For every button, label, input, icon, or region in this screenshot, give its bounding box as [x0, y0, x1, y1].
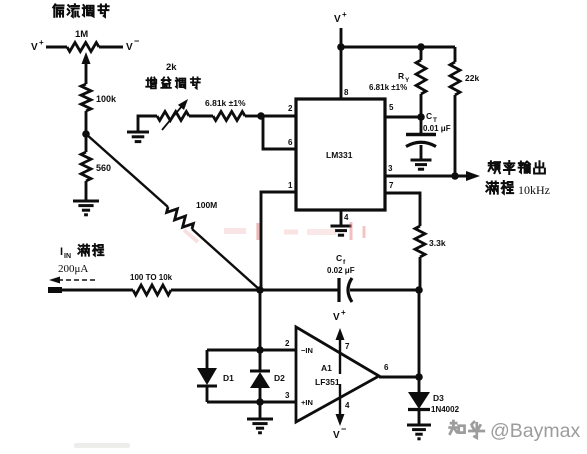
svg-text:V: V	[31, 42, 38, 53]
svg-text:100 TO 10k: 100 TO 10k	[130, 273, 173, 282]
node F (22k / output)	[451, 172, 459, 180]
label: frequency output (Chinese)	[489, 161, 545, 174]
label: full scale 10kHz (Chinese+latin)	[486, 181, 550, 197]
svg-text:1N4002: 1N4002	[431, 405, 460, 414]
svg-text:R: R	[398, 71, 404, 81]
svg-text:−IN: −IN	[301, 346, 313, 355]
op-amp A1 LF351 triangle	[296, 327, 379, 422]
wire 100k to node A	[85, 111, 88, 134]
svg-text:@Baymax: @Baymax	[490, 420, 580, 442]
label 2k	[166, 62, 177, 73]
wire resistor to node G	[171, 289, 260, 292]
watermark zhihu @Baymax	[450, 420, 581, 442]
capacitor CT	[406, 117, 436, 160]
svg-text:0.02 μF: 0.02 μF	[327, 266, 355, 275]
label 200uA	[58, 263, 88, 275]
wire node H down to output node	[418, 290, 421, 377]
wire 6.81k to node B	[245, 115, 261, 118]
label -IN	[301, 346, 313, 355]
svg-text:3: 3	[388, 164, 393, 173]
svg-text:5: 5	[389, 103, 394, 112]
pin 6 stub LM331	[263, 116, 296, 149]
label V+ left terminal of offset pot	[31, 38, 44, 53]
svg-text:8: 8	[344, 88, 349, 97]
node C (V+ rail left)	[337, 43, 345, 51]
svg-text:10kHz: 10kHz	[518, 183, 550, 197]
ground (gain pot left end)	[127, 132, 149, 142]
capacitor Cf	[260, 278, 419, 302]
svg-text:2k: 2k	[166, 62, 177, 73]
faint caption smudge bottom-left	[74, 443, 130, 448]
wire 560 to ground	[85, 181, 88, 201]
resistor 22k	[450, 47, 479, 176]
label: gain adjust title (Chinese)	[146, 77, 200, 88]
svg-text:+: +	[341, 308, 346, 317]
svg-text:100M: 100M	[196, 200, 217, 210]
svg-text:3.3k: 3.3k	[429, 238, 446, 248]
wire -IN rail	[207, 339, 296, 350]
label V- (op-amp)	[333, 424, 346, 441]
resistor Ry 6.81k 1%	[369, 47, 426, 117]
node B junction (pin2/pin6 tie)	[257, 112, 265, 120]
node G (summing input node)	[256, 286, 264, 294]
svg-text:6.81k ±1%: 6.81k ±1%	[205, 98, 246, 108]
svg-text:7: 7	[345, 342, 350, 351]
svg-text:A1: A1	[321, 363, 332, 373]
IC U1 LM331 body	[296, 99, 385, 210]
resistor 6.81k 1%	[189, 98, 246, 121]
svg-text:LF351: LF351	[315, 377, 340, 387]
svg-text:V: V	[126, 42, 133, 53]
node J (+IN rail junction)	[256, 398, 264, 406]
pin 2 stub LM331	[261, 104, 296, 116]
pin 1 stub LM331	[261, 181, 296, 290]
node D (V+ rail / Ry top)	[417, 43, 425, 51]
svg-text:4: 4	[344, 213, 349, 222]
ground (below 560)	[73, 201, 99, 215]
svg-text:V: V	[333, 430, 340, 441]
ground (below CT)	[411, 160, 432, 169]
svg-text:−: −	[341, 424, 346, 434]
svg-text:3: 3	[285, 391, 290, 400]
op-amp V+ supply arrow pin 7	[336, 328, 351, 374]
ground (LM331 pin 4)	[331, 226, 352, 235]
node A junction	[82, 130, 90, 138]
diode D2	[250, 350, 285, 402]
ground (below D3)	[407, 425, 431, 439]
svg-text:2: 2	[288, 104, 293, 113]
svg-text:4: 4	[345, 401, 350, 410]
svg-text:2: 2	[285, 339, 290, 348]
resistor 100k	[81, 84, 117, 111]
wiper arrow of offset pot	[82, 52, 91, 84]
pin 3 stub LM331 / output line	[385, 164, 467, 176]
svg-text:C: C	[336, 253, 342, 263]
potentiometer R1 1M (offset adjust)	[67, 29, 99, 52]
resistor 560	[81, 134, 111, 181]
svg-text:200μA: 200μA	[58, 263, 88, 275]
svg-text:D2: D2	[274, 373, 285, 383]
output arrow	[466, 171, 480, 181]
label: offset adjust title (Chinese)	[53, 4, 108, 17]
svg-text:V: V	[334, 14, 341, 25]
potentiometer R2 2k (gain adjust)	[157, 112, 189, 121]
pin 7 stub LM331	[385, 181, 420, 226]
input wire left end	[48, 289, 133, 292]
label V- right terminal	[126, 36, 139, 53]
svg-text:D3: D3	[433, 393, 444, 403]
svg-text:7: 7	[389, 181, 394, 190]
label +IN	[301, 398, 313, 407]
pin 8 stub and V+ supply	[341, 28, 349, 99]
svg-text:T: T	[433, 117, 437, 124]
svg-text:6: 6	[384, 363, 389, 372]
svg-text:+: +	[39, 38, 44, 47]
node I (-IN rail junction)	[256, 346, 264, 354]
wire node G down to -IN rail	[259, 290, 262, 350]
op-amp V- supply arrow pin 4	[336, 384, 351, 426]
resistor 3.3k	[415, 226, 446, 289]
diode D3 1N4002	[408, 377, 460, 425]
label 0.02 uF	[327, 266, 355, 275]
svg-text:V: V	[333, 312, 340, 323]
svg-text:IN: IN	[64, 253, 71, 260]
svg-text:LM331: LM331	[326, 150, 353, 160]
svg-text:1: 1	[288, 181, 293, 190]
label 0.01 uF	[423, 124, 451, 133]
label Cf	[336, 253, 346, 266]
wire pot to V-	[99, 46, 123, 49]
ground (op-amp +IN)	[247, 419, 273, 433]
label V+ (LM331 supply)	[334, 10, 347, 25]
svg-text:D1: D1	[223, 373, 234, 383]
svg-text:560: 560	[96, 163, 111, 173]
svg-text:22k: 22k	[465, 73, 479, 83]
svg-text:+IN: +IN	[301, 398, 313, 407]
diode D1	[197, 350, 234, 402]
resistor 100 TO 10k	[130, 273, 173, 295]
node H (Cf / 3.3k junction)	[415, 286, 423, 294]
wire V+ rail	[341, 46, 455, 49]
wire ground stub to gain pot	[138, 116, 157, 131]
pin 5 stub LM331	[385, 103, 421, 117]
svg-text:6: 6	[288, 138, 293, 147]
svg-text:I: I	[60, 246, 63, 258]
wire +IN rail	[207, 391, 296, 402]
svg-text:6.81k ±1%: 6.81k ±1%	[369, 83, 407, 92]
svg-text:100k: 100k	[96, 94, 117, 104]
svg-text:+: +	[342, 10, 347, 19]
wire V+ to pot	[46, 46, 67, 49]
label V+ (op-amp)	[333, 308, 346, 323]
dashed direction arrow	[49, 277, 95, 284]
op-amp output pin 6 wire	[379, 363, 419, 377]
node E (pin5 / CT)	[417, 113, 425, 121]
label: IIN full-scale (Chinese)	[60, 244, 104, 260]
decorative red watermark remnants (not labeled further)	[184, 222, 364, 242]
node K (output node)	[415, 373, 423, 381]
svg-text:0.01 μF: 0.01 μF	[423, 124, 451, 133]
svg-text:−: −	[134, 36, 139, 46]
arrow through gain pot	[162, 99, 188, 130]
wire node J to ground	[259, 402, 262, 419]
pin 4 stub LM331 to ground	[341, 210, 349, 226]
svg-text:1M: 1M	[75, 29, 88, 40]
label CT	[426, 111, 437, 124]
svg-text:C: C	[426, 111, 432, 121]
resistor 100M (diagonal)	[86, 134, 260, 290]
